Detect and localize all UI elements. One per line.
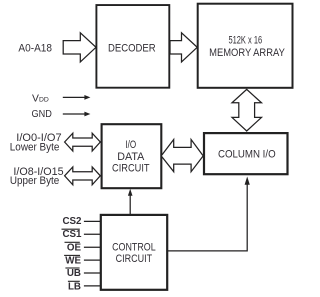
arrow GND [63, 112, 91, 117]
svg-text:UB: UB [67, 268, 81, 279]
overline OE [65, 241, 80, 243]
horizontal double arrow I/O DATA CIRCUIT to COLUMN I/O [161, 140, 203, 172]
wire LB [84, 285, 102, 287]
block MEMORY ARRAY [198, 4, 293, 88]
svg-text:DECODER: DECODER [108, 42, 156, 54]
wire CONTROL CIRCUIT to COLUMN I/O [167, 177, 250, 251]
overline UB [65, 267, 79, 269]
arrow VDD [63, 95, 91, 100]
svg-text:CS2: CS2 [62, 216, 82, 227]
svg-text:CIRCUIT: CIRCUIT [116, 253, 153, 265]
block arrow DECODER to MEMORY ARRAY [170, 33, 197, 62]
block CONTROL CIRCUIT [101, 215, 167, 290]
wire CS1 [84, 233, 102, 235]
block DECODER [96, 5, 169, 88]
wire UB [84, 272, 102, 274]
svg-text:CS1: CS1 [62, 229, 82, 240]
overline WE [64, 254, 80, 256]
overline LB [68, 280, 80, 282]
svg-text:Lower Byte: Lower Byte [10, 142, 60, 154]
svg-text:GND: GND [32, 109, 52, 120]
double arrow lower byte [65, 133, 101, 151]
overline CS1 [62, 228, 80, 230]
wire OE [84, 246, 102, 248]
svg-text:MEMORY ARRAY: MEMORY ARRAY [209, 47, 285, 59]
svg-text:Upper Byte: Upper Byte [10, 175, 59, 187]
svg-text:WE: WE [65, 255, 81, 266]
wire CONTROL CIRCUIT to I/O DATA CIRCUIT [128, 189, 133, 215]
block COLUMN I/O [204, 133, 288, 174]
svg-text:OE: OE [67, 242, 82, 253]
svg-text:I/O: I/O [125, 139, 136, 151]
wire CS2 [84, 220, 102, 222]
block arrow A0-A18 to DECODER [63, 33, 96, 62]
svg-text:512K x 16: 512K x 16 [228, 35, 262, 47]
block I/O DATA CIRCUIT [102, 124, 162, 188]
vertical double arrow MEMORY ARRAY to COLUMN I/O [232, 89, 262, 131]
double arrow upper byte [65, 167, 101, 185]
svg-text:COLUMN I/O: COLUMN I/O [218, 148, 276, 160]
wire WE [84, 259, 102, 261]
svg-text:CIRCUIT: CIRCUIT [112, 163, 150, 175]
svg-text:CONTROL: CONTROL [112, 241, 156, 253]
svg-text:DATA: DATA [117, 151, 145, 163]
svg-text:A0-A18: A0-A18 [18, 43, 52, 55]
svg-text:LB: LB [68, 281, 81, 292]
